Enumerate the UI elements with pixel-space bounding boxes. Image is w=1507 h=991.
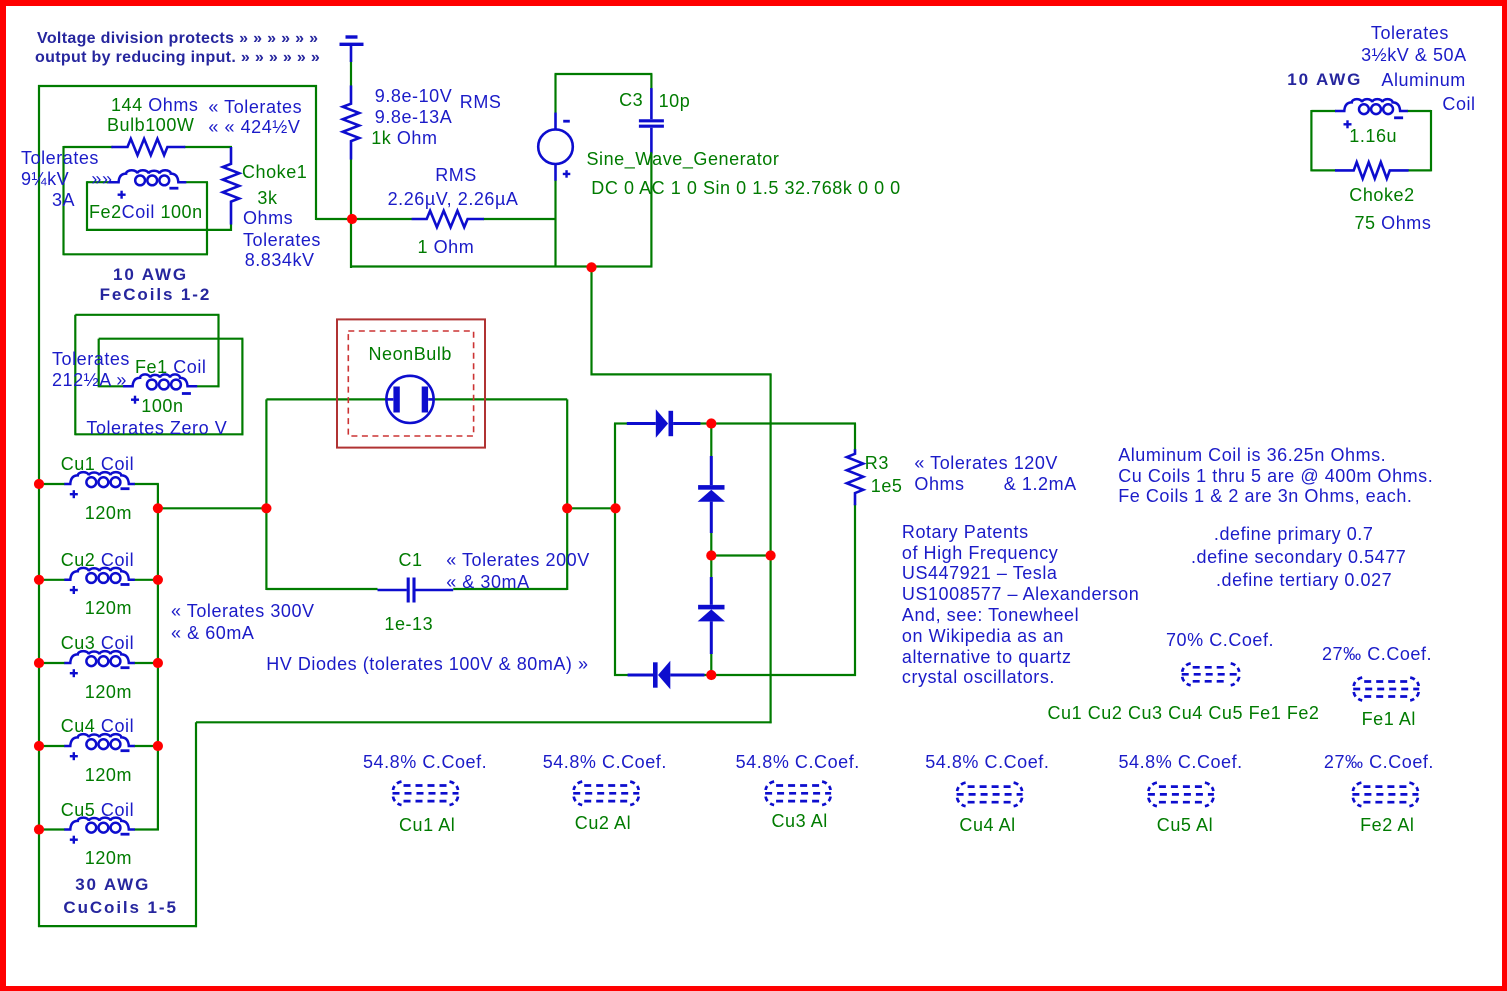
label fe2 label <box>89 203 203 222</box>
label 1k a <box>375 108 452 127</box>
label fe1 tolerates 2 <box>52 371 127 390</box>
label fe1 zero <box>86 419 227 438</box>
polarity + cu2 + <box>70 586 78 594</box>
wire neon right drop <box>566 399 568 590</box>
label choke2 value <box>1355 214 1432 233</box>
neon bulb <box>386 376 433 423</box>
wire neon row right <box>433 398 568 400</box>
label choke1 ohms <box>243 209 293 228</box>
wire top diode row right <box>700 422 856 424</box>
label cu3 value <box>85 683 132 702</box>
label k2 label <box>543 753 667 772</box>
node cu4 left <box>34 741 44 751</box>
label rms2 <box>435 166 477 185</box>
wire c1 row right <box>453 588 567 590</box>
label r3 name <box>865 454 889 473</box>
wire cu1 row left <box>39 483 65 485</box>
coupling K 70% <box>1182 663 1240 685</box>
label coil right <box>1442 95 1475 114</box>
label rotary 6 <box>902 627 1064 646</box>
label choke1 kv <box>245 251 315 270</box>
label sine name <box>587 150 780 169</box>
label rotary 1 <box>902 523 1029 542</box>
label neon name <box>369 345 452 364</box>
label k27a name <box>1362 710 1416 729</box>
wire cu2 row left <box>39 579 65 581</box>
wire mid jumper <box>711 554 770 556</box>
label k6 name <box>1360 816 1414 835</box>
wire fe1 row left <box>99 385 124 387</box>
label rotary 5 <box>902 606 1079 625</box>
wire choke2 top right <box>1407 110 1431 112</box>
label aluminum <box>1381 71 1465 90</box>
wire fe1 rect1 left <box>74 315 76 436</box>
label cu5 label <box>61 801 134 820</box>
resistor R 1 Ohm <box>412 211 484 227</box>
wire neon row left <box>266 398 387 400</box>
wire choke2 bot left <box>1311 169 1336 171</box>
wire bulb row left <box>64 146 114 148</box>
polarity + choke2 + <box>1344 120 1352 128</box>
wire 1k to junction <box>350 159 352 268</box>
label k5 name <box>1157 816 1213 835</box>
wire junction row <box>352 218 412 220</box>
wire cu5 row left <box>39 828 65 830</box>
wire d2 top stub <box>710 424 712 458</box>
neon bulb outer box <box>337 319 485 447</box>
wire right cu bus <box>157 484 159 831</box>
label rms2 values <box>388 190 519 209</box>
wire return bottom <box>196 721 772 723</box>
label 1k value <box>371 129 437 148</box>
label cu tolerates 2 <box>171 624 254 643</box>
label define 2 <box>1191 548 1406 567</box>
inductor Cu5 Coil <box>64 818 135 833</box>
label header line 2 <box>35 48 320 67</box>
label cu2 label <box>61 551 134 570</box>
wire fe2 row right <box>185 181 208 183</box>
wire drop from bottom rail <box>590 267 592 376</box>
wire cu3 row right <box>134 662 159 664</box>
inductor Cu1 Coil <box>64 472 135 487</box>
wire choke1 bottom stub <box>230 224 232 231</box>
polarity - cu2 - <box>121 583 130 586</box>
label k3 label <box>736 753 860 772</box>
wire d3 bottom stub <box>710 653 712 676</box>
wire bulb row right <box>184 146 232 148</box>
node bridge mid right <box>766 550 776 560</box>
border bottom <box>0 986 1507 991</box>
wire d2 bottom stub <box>710 532 712 556</box>
node bridge bottom <box>706 670 716 680</box>
wire c1 row left <box>266 588 377 590</box>
label rotary 7 <box>902 648 1072 667</box>
wire loop left edge <box>62 146 64 255</box>
wire choke2 left <box>1310 110 1312 171</box>
wire c3 branch bottom <box>650 153 652 268</box>
wire sine branch top <box>554 74 556 113</box>
border left <box>0 0 6 991</box>
label bulb tolerates 1 <box>208 98 302 117</box>
diode D1 <box>656 409 673 438</box>
label cu1 label <box>61 455 134 474</box>
wire fe2 left riser <box>86 181 88 231</box>
label k4 name <box>959 816 1015 835</box>
label fe1 tolerates 1 <box>52 350 130 369</box>
label choke1 value <box>257 189 277 208</box>
wire sine branch bottom <box>554 180 556 268</box>
wire return riser <box>195 722 197 927</box>
node cu3 left <box>34 658 44 668</box>
label rotary 4 <box>902 585 1139 604</box>
label note cu <box>1118 467 1433 486</box>
polarity - choke2 - <box>1394 116 1403 119</box>
coupling K Cu1-Al <box>393 782 459 806</box>
wire fe1 row right <box>196 385 220 387</box>
label cucoils bold 2 <box>63 898 177 917</box>
label bulb tolerates 2 <box>208 118 300 137</box>
node cu3 right <box>153 658 163 668</box>
wire fe1 rect1 top <box>75 314 219 316</box>
node neon right <box>562 503 572 513</box>
label 1ohm <box>418 238 475 257</box>
wire fe2 bottom <box>86 229 232 231</box>
wire fe1 rect2 bottom <box>75 433 243 435</box>
border right <box>1502 0 1507 991</box>
wire to 1k junction <box>316 218 353 220</box>
label k6 label <box>1324 753 1434 772</box>
label r3 tol 2a <box>914 475 964 494</box>
node bridge mid left <box>706 550 716 560</box>
coupling K Fe1-Al <box>1353 678 1419 701</box>
coupling K Cu3-Al <box>765 782 831 806</box>
wire fe1 rect1 right <box>217 315 219 388</box>
node cu2 left <box>34 575 44 585</box>
node res junction <box>347 214 357 224</box>
label k4 label <box>925 753 1049 772</box>
label fe2 tolerates 1 <box>21 149 99 168</box>
label define 3 <box>1216 571 1392 590</box>
node cu1 left <box>34 479 44 489</box>
inductor Fe2 Coil <box>109 170 187 185</box>
polarity + cu3 + <box>70 669 78 677</box>
wire diode node jumper <box>567 507 615 509</box>
wire left bus <box>38 85 40 927</box>
polarity - cu4 - <box>121 749 130 752</box>
label al tolerates 2 <box>1361 46 1467 65</box>
wire bottom diode row right <box>704 674 856 676</box>
border top <box>0 0 1507 6</box>
polarity - cu5 - <box>121 833 130 836</box>
wire jog to diode col <box>591 373 772 375</box>
wire bottom box edge <box>38 925 197 927</box>
label bulb name <box>107 116 194 135</box>
label al tolerates 1 <box>1371 24 1449 43</box>
node cu4 right <box>153 741 163 751</box>
polarity - fe2 - <box>169 187 178 190</box>
label k2 name <box>575 814 631 833</box>
inductor Cu4 Coil <box>64 734 135 749</box>
wire choke2 right <box>1430 110 1432 171</box>
label fe1 label <box>135 358 206 377</box>
wire fe1 inner left <box>98 339 100 388</box>
polarity - sine - <box>563 120 570 123</box>
label awg bold right <box>1287 70 1362 89</box>
label c1 tol 1 <box>446 551 590 570</box>
polarity + fe2 + <box>118 191 126 199</box>
inductor Fe1 Coil <box>123 374 197 389</box>
label fecoils bold 1 <box>113 265 188 284</box>
wire diode col left <box>614 424 616 677</box>
wire cu4 row left <box>39 745 65 747</box>
wire bottom diode row left <box>614 674 629 676</box>
wire fe2 row left <box>87 181 110 183</box>
label choke2 name <box>1349 186 1414 205</box>
node cu5 left <box>34 824 44 834</box>
label k70 label <box>1166 631 1274 650</box>
node bridge top <box>706 418 716 428</box>
wire c3 branch top <box>650 74 652 89</box>
wire top diode row left <box>614 422 628 424</box>
label c3 name <box>619 91 643 110</box>
resistor R 1k <box>343 86 359 160</box>
label define 1 <box>1214 525 1374 544</box>
label rotary 3 <box>902 564 1058 583</box>
node bottom rail <box>586 262 596 272</box>
label cu1 value <box>85 504 132 523</box>
label sine params <box>591 179 900 198</box>
label bulb value <box>111 96 198 115</box>
wire fe1 rect2 top <box>99 338 244 340</box>
label cu2 value <box>85 599 132 618</box>
wire cu5 row right <box>134 828 159 830</box>
label c1 value <box>384 615 433 634</box>
node cu bus mid <box>153 503 163 513</box>
label rotary 2 <box>902 544 1058 563</box>
label cu4 value <box>85 766 132 785</box>
polarity + fe1 + <box>131 396 139 404</box>
label 1k rms <box>460 93 502 112</box>
label fe1 value <box>141 397 183 416</box>
coupling K Cu5-Al <box>1148 783 1214 807</box>
label hv diodes <box>266 655 588 674</box>
label choke1 tol <box>243 231 321 250</box>
wire right drop long <box>769 374 771 556</box>
ground symbol <box>340 37 364 62</box>
wire choke2 bot right <box>1408 169 1431 171</box>
wire fe1 rect2 right <box>241 339 243 436</box>
label c1 name <box>399 551 423 570</box>
coupling K Fe2-Al <box>1352 783 1418 807</box>
label k5 label <box>1119 753 1243 772</box>
label r3 value <box>871 477 903 496</box>
polarity + cu4 + <box>70 752 78 760</box>
label r3 tol 1 <box>914 454 1058 473</box>
label cu tolerates 1 <box>171 602 315 621</box>
wire bottom rail <box>351 265 652 267</box>
polarity - cu1 - <box>121 487 130 490</box>
label cucoils bold 1 <box>75 875 150 894</box>
inductor Cu2 Coil <box>64 568 135 583</box>
diode D4 <box>653 661 670 690</box>
label al value <box>1349 127 1397 146</box>
node neon left <box>261 503 271 513</box>
wire d3 top stub <box>710 556 712 579</box>
label k27a label <box>1322 645 1432 664</box>
wire sine top rail <box>555 73 653 75</box>
inductor Aluminum Coil <box>1335 99 1408 114</box>
label k1 name <box>399 816 455 835</box>
resistor Choke2 resistor <box>1335 162 1409 178</box>
resistor Choke1 <box>223 147 239 225</box>
wire cu3 row left <box>39 662 65 664</box>
coupling K Cu4-Al <box>957 783 1023 807</box>
diode D3 <box>698 605 725 622</box>
neon bulb dashed box <box>348 331 473 436</box>
polarity + cu5 + <box>70 836 78 844</box>
polarity - fe1 - <box>182 392 191 395</box>
resistor R3 <box>847 449 863 505</box>
polarity - cu3 - <box>121 666 130 669</box>
label cu4 label <box>61 717 134 736</box>
label fe2 tolerates 2 <box>21 170 113 189</box>
label note al <box>1118 446 1386 465</box>
label 1k v <box>375 87 452 106</box>
wire cu4 row right <box>134 745 159 747</box>
wire cu node jumper <box>158 507 267 509</box>
label r3 tol 2b <box>1004 475 1077 494</box>
wire outer right edge <box>315 85 317 220</box>
label cu5 value <box>85 849 132 868</box>
label choke1 name <box>242 163 307 182</box>
source V1 sine wave generator <box>538 113 573 181</box>
label fe2 tolerates 3 <box>52 191 75 210</box>
capacitor C3 <box>639 88 664 153</box>
wire right drop lower <box>769 556 771 724</box>
label k list <box>1048 704 1320 723</box>
label fecoils bold 2 <box>100 285 212 304</box>
coupling K Cu2-Al <box>573 782 639 806</box>
wire neon left drop <box>265 399 267 590</box>
wire r3 branch bottom <box>854 504 856 676</box>
label k3 name <box>772 812 828 831</box>
label k1 label <box>363 753 487 772</box>
wire gnd stem green <box>350 60 352 86</box>
label note fe <box>1118 487 1412 506</box>
inductor Cu3 Coil <box>64 651 135 666</box>
wire cu2 row right <box>134 579 159 581</box>
node cu2 right <box>153 575 163 585</box>
wire top rail <box>38 85 317 87</box>
wire fe2 right drop <box>206 182 208 254</box>
label c3 value <box>659 92 691 111</box>
capacitor C1 <box>378 578 454 603</box>
polarity + cu1 + <box>70 490 78 498</box>
wire 1ohm to sine <box>483 218 557 220</box>
wire choke2 top left <box>1311 110 1336 112</box>
wire cu1 row right <box>134 483 159 485</box>
label c1 tol 2 <box>446 573 529 592</box>
resistor Bulb100W <box>111 139 185 155</box>
label header line 1 <box>37 29 318 48</box>
wire r3 branch top <box>854 424 856 451</box>
label cu3 label <box>61 634 134 653</box>
diode D2 <box>698 485 725 502</box>
label rotary 8 <box>902 668 1055 687</box>
polarity + sine + <box>563 170 571 178</box>
node diode col <box>610 503 620 513</box>
wire loop bottom <box>64 253 209 255</box>
